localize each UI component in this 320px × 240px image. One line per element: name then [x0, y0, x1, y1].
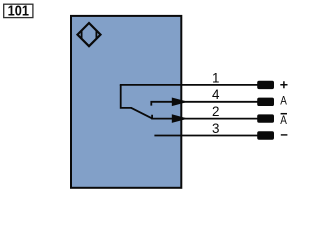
figure number box 101: [4, 4, 33, 17]
svg-text:A: A: [280, 95, 287, 108]
svg-text:2: 2: [212, 104, 219, 119]
diamond left chord: [81, 30, 83, 39]
switch common path from wire 1: [121, 85, 132, 108]
switch lever (diagonal): [131, 108, 152, 119]
terminal 2: [257, 114, 274, 122]
sensor body (blue rectangle): [71, 16, 181, 188]
terminal 4: [257, 98, 274, 106]
svg-text:1: 1: [212, 70, 219, 85]
polarity symbol +: [280, 81, 287, 88]
terminal 3: [257, 131, 274, 139]
arrow on wire 4: [172, 98, 188, 107]
polarity symbol -: [281, 134, 288, 136]
wire 4: [150, 102, 258, 106]
wire 2: [151, 115, 258, 119]
svg-text:A: A: [280, 114, 287, 127]
wire 1: [120, 84, 258, 86]
arrow on wire 2: [172, 114, 188, 123]
svg-text:101: 101: [8, 4, 29, 20]
svg-text:3: 3: [212, 121, 219, 136]
proximity sensor diamond symbol: [78, 23, 101, 46]
svg-text:4: 4: [212, 87, 220, 102]
diamond right chord: [95, 30, 97, 39]
terminal 1: [257, 81, 274, 89]
wire 3: [154, 135, 258, 137]
